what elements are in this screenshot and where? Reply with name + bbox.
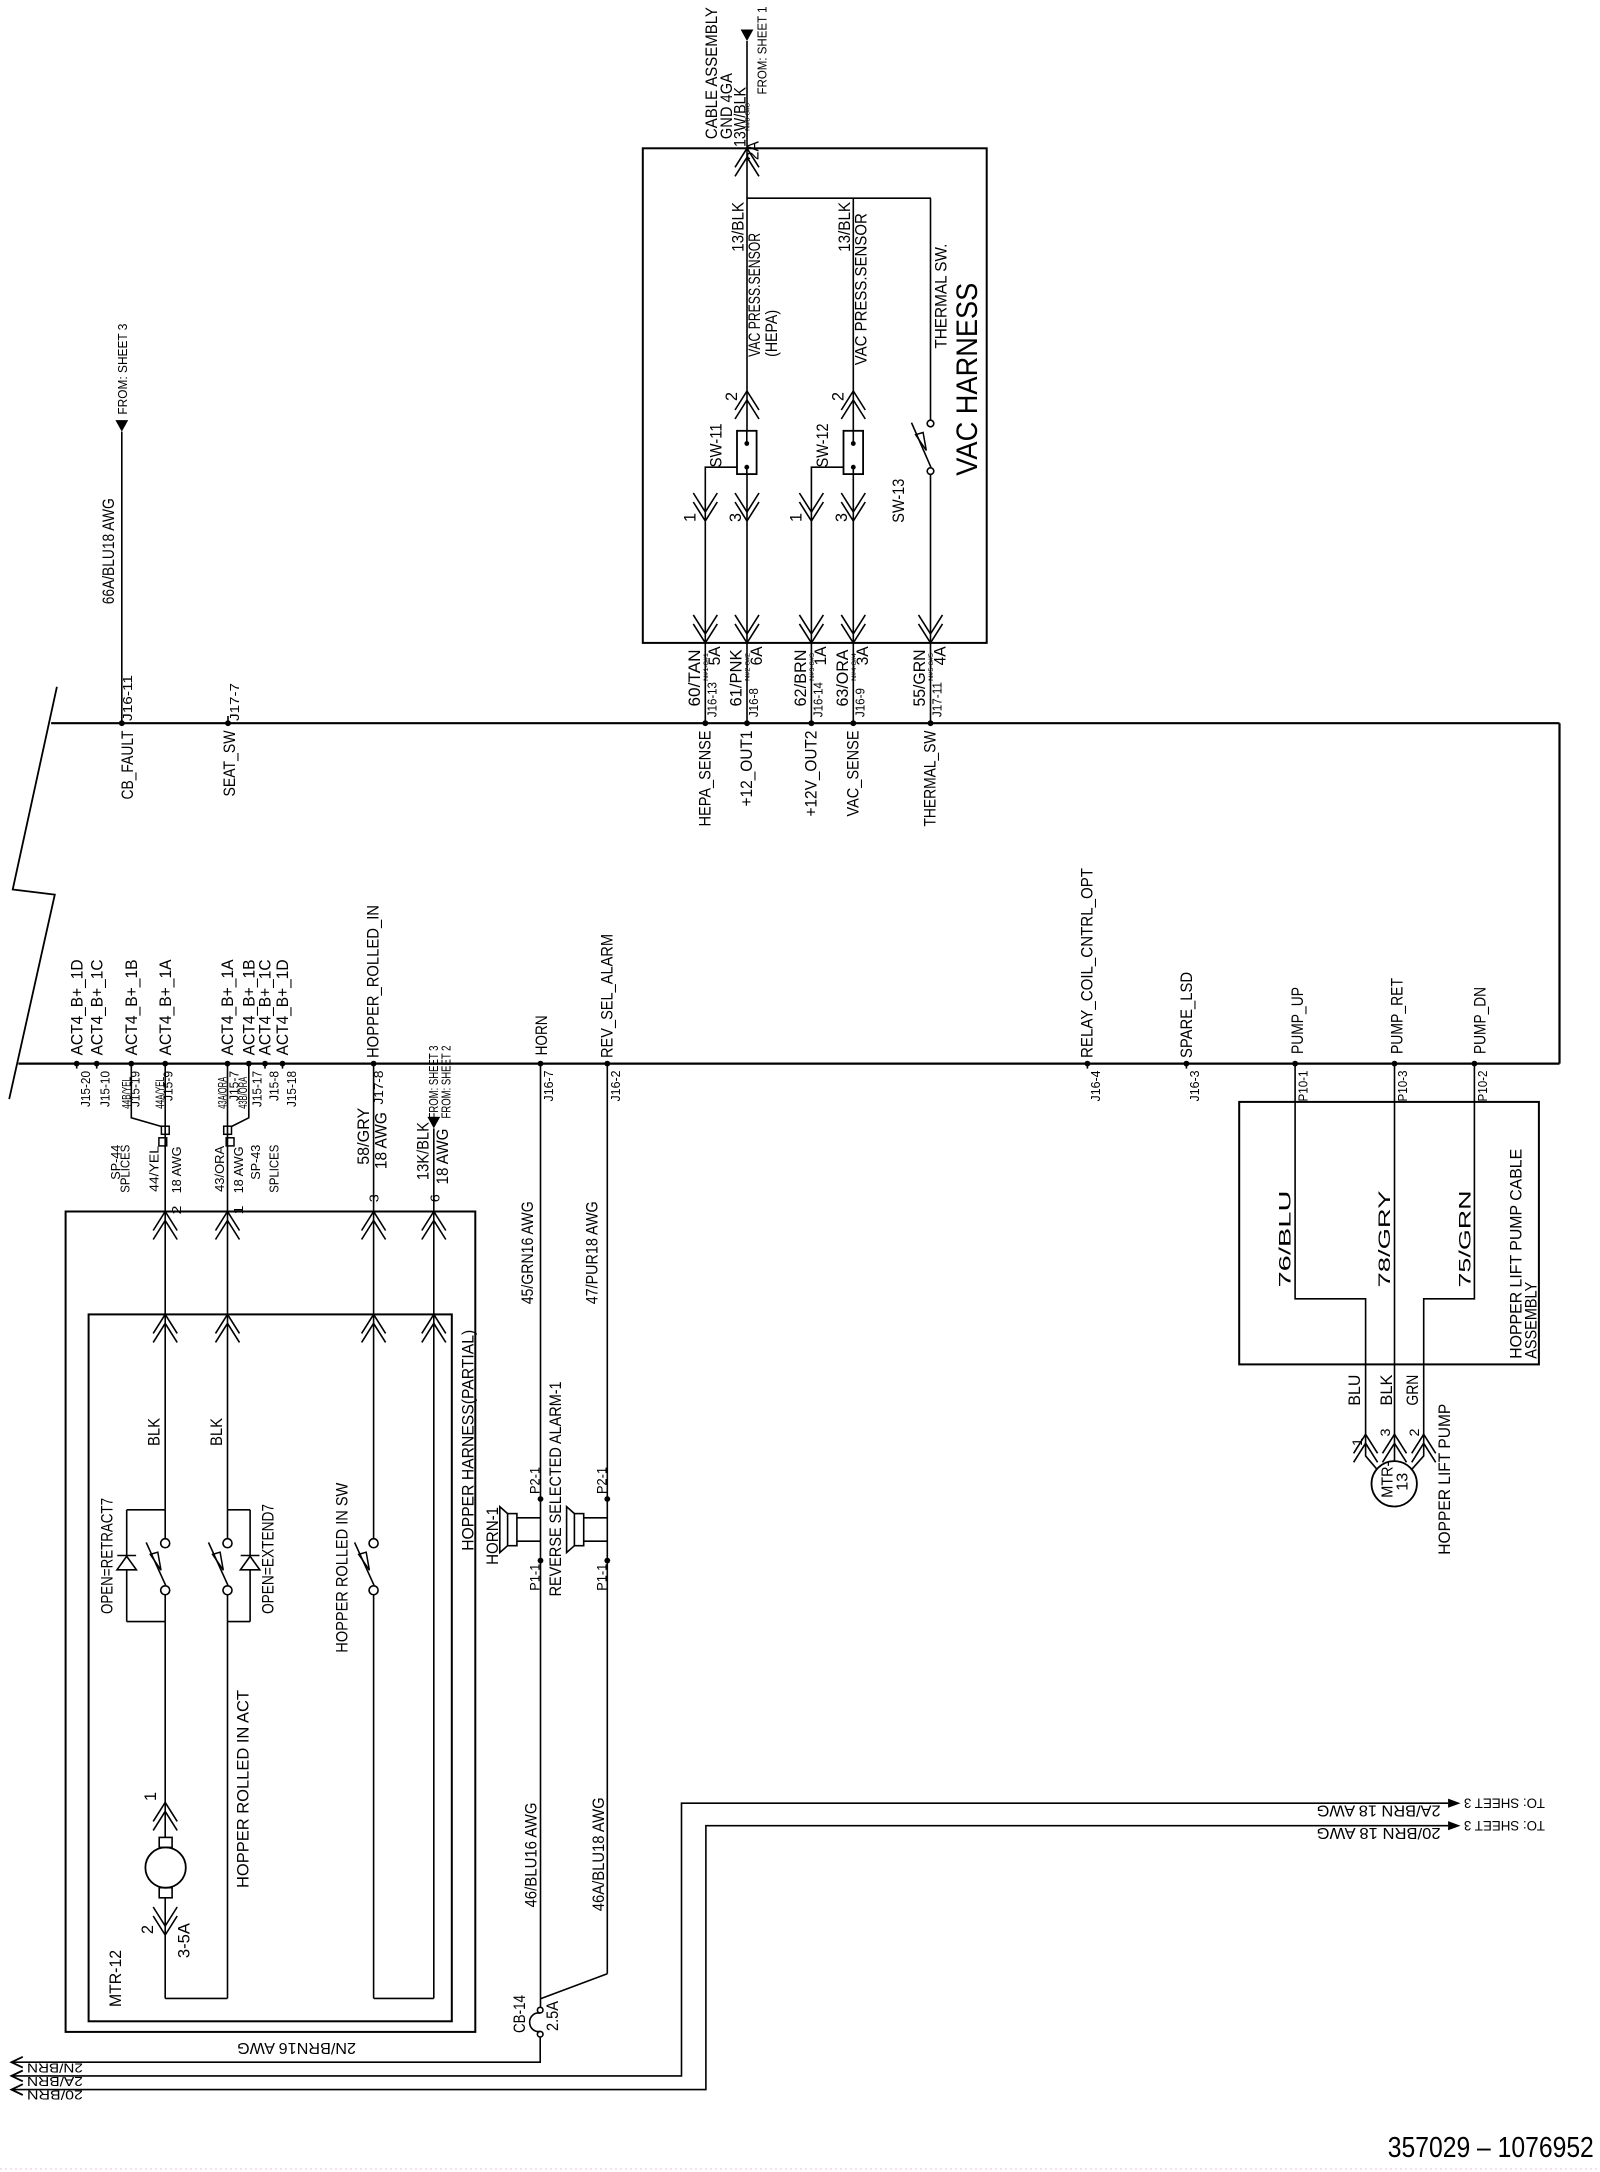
svg-text:3: 3	[367, 1194, 382, 1202]
svg-text:58/GRY: 58/GRY	[355, 1108, 373, 1165]
wire: 13/BLK branch to SW-12 pin 2	[852, 198, 854, 431]
break symbol: controller torn edge	[9, 687, 57, 1099]
svg-text:6: 6	[427, 1194, 442, 1202]
svg-text:HOPPER HARNESS(PARTIAL): HOPPER HARNESS(PARTIAL)	[459, 1330, 477, 1551]
svg-text:1: 1	[142, 1792, 160, 1801]
svg-text:2A/BRN: 2A/BRN	[27, 2074, 83, 2089]
svg-text:FROM: SHEET 1: FROM: SHEET 1	[755, 7, 770, 95]
chevron: crossing at hopper box top edge	[362, 1212, 386, 1240]
wire: 44/YEL inside harness (w1 upper)	[164, 1212, 166, 1510]
node: junction J15-18 (no wire)	[280, 1061, 286, 1067]
chevron: crossing at hopper box top edge	[153, 1212, 177, 1240]
node: P2-1 junction (horn)	[538, 1496, 544, 1502]
wire: motor bottom lead	[164, 1898, 166, 1999]
svg-text:357029 – 1076952: 357029 – 1076952	[1388, 2132, 1594, 2164]
svg-text:61/PNK: 61/PNK	[728, 650, 746, 707]
svg-text:THERMAL_SW: THERMAL_SW	[922, 730, 940, 826]
svg-text:(HEPA): (HEPA)	[763, 310, 781, 357]
wire: SW-11 pin 1 tap	[705, 467, 737, 643]
svg-text:2: 2	[829, 392, 847, 401]
wire: SW-11 pin 3 down	[746, 474, 748, 643]
wire: 43/ORA inside harness (w2 upper)	[227, 1212, 229, 1510]
node: junction J15-20 (no wire)	[74, 1061, 80, 1067]
svg-text:OPEN=EXTEND7: OPEN=EXTEND7	[260, 1504, 278, 1614]
svg-text:HORN: HORN	[533, 1015, 551, 1055]
svg-text:13/BLK: 13/BLK	[836, 202, 854, 252]
node: junction J16-4 (no wire)	[1085, 1061, 1091, 1067]
wire: combo 2 top node	[228, 1509, 251, 1511]
svg-text:BLU: BLU	[1346, 1375, 1364, 1406]
svg-text:BLK: BLK	[208, 1418, 226, 1446]
svg-text:78/GRY: 78/GRY	[1376, 1191, 1394, 1288]
switch: HOPPER ROLLED IN SW	[373, 1212, 375, 1539]
svg-text:1: 1	[787, 513, 805, 522]
svg-text:N#3-8#3: N#3-8#3	[809, 653, 816, 681]
svg-text:60/TAN: 60/TAN	[686, 650, 704, 707]
svg-text:47/PUR18 AWG: 47/PUR18 AWG	[584, 1201, 602, 1304]
svg-text:HEPA_SENSE: HEPA_SENSE	[697, 731, 715, 827]
wire: 13K/BLK inside harness (w4)	[433, 1212, 435, 1999]
arrow: 2A/BRN exit left	[11, 2071, 22, 2082]
svg-text:TO: SHEET 3: TO: SHEET 3	[1464, 1818, 1545, 1833]
svg-text:44/YEL: 44/YEL	[147, 1146, 161, 1192]
wire: 20/BRN run to sheet 3	[11, 1826, 1448, 2090]
svg-text:3: 3	[1377, 1428, 1393, 1436]
svg-text:20/BRN: 20/BRN	[27, 2088, 83, 2103]
wire: SW-12 pin 1 tap	[811, 467, 843, 643]
node: junction J16-9 on upper bus	[850, 720, 856, 726]
svg-text:HOPPER LIFT PUMP: HOPPER LIFT PUMP	[1436, 1404, 1454, 1555]
chevron: motor pin 2 (MTR-13)	[1412, 1434, 1436, 1462]
chevron: 63/ORA crossing at VAC box bottom edge	[841, 615, 865, 643]
chevron: pin 1 of SW-11	[693, 493, 717, 521]
svg-text:2: 2	[139, 1925, 157, 1934]
svg-text:P10-2: P10-2	[1475, 1071, 1490, 1102]
svg-text:J15-17: J15-17	[249, 1071, 264, 1107]
harness box: hopper harness inner outline	[89, 1314, 452, 2021]
wire: J15-9 through splice SP-44 into hopper harness	[164, 1064, 166, 1212]
svg-text:45/GRN16 AWG: 45/GRN16 AWG	[519, 1201, 537, 1304]
component: vacuum pressure sensor SW-11	[737, 431, 757, 474]
svg-text:ACT4_B+_1B: ACT4_B+_1B	[123, 959, 141, 1055]
svg-text:HOPPER ROLLED IN SW: HOPPER ROLLED IN SW	[334, 1482, 352, 1652]
node: junction J16-3 (no wire)	[1184, 1061, 1190, 1067]
svg-text:13: 13	[1395, 1473, 1412, 1491]
arrow: TO SHEET 3 (2A/BRN)	[1448, 1799, 1460, 1808]
svg-text:J16-13: J16-13	[705, 682, 720, 717]
chevron: crossing at hopper inner box top edge	[422, 1314, 446, 1342]
svg-text:HORN-1: HORN-1	[484, 1507, 502, 1565]
arrow: TO SHEET 3 (20/BRN)	[1448, 1821, 1460, 1830]
wire: 2N/BRN return from CB-14 to left edge	[11, 2037, 540, 2062]
wire: 61/PNK from VAC harness to pin J16-8	[746, 643, 748, 723]
svg-text:ACT4_B+_1C: ACT4_B+_1C	[88, 959, 106, 1055]
scan artifact: faint dotted line at bottom	[0, 2168, 1600, 2170]
svg-text:BLK: BLK	[1378, 1375, 1396, 1406]
svg-text:SW-11: SW-11	[708, 423, 726, 467]
svg-text:2.5A: 2.5A	[544, 2001, 562, 2031]
component: thermal switch SW-13	[927, 420, 934, 427]
wire: 13K/BLK from sheets 3 and 2	[433, 1128, 435, 1211]
chevron: 60/TAN crossing at VAC box bottom edge	[693, 615, 717, 643]
svg-text:J16-2: J16-2	[608, 1071, 623, 1102]
svg-text:CB-14: CB-14	[511, 1995, 529, 2033]
diode: retract limit diode	[126, 1510, 128, 1556]
svg-text:ACT4_B+_1A: ACT4_B+_1A	[157, 959, 175, 1055]
svg-text:13/BLK: 13/BLK	[730, 202, 748, 252]
node: junction J16-11 on upper bus	[119, 720, 125, 726]
wire: w1 combo to motor	[164, 1622, 166, 1838]
svg-text:SPLICES: SPLICES	[118, 1145, 132, 1193]
svg-text:P1-1: P1-1	[594, 1564, 609, 1591]
svg-text:P1-1: P1-1	[528, 1564, 543, 1591]
svg-text:3: 3	[833, 513, 851, 522]
svg-text:76/BLU: 76/BLU	[1277, 1191, 1295, 1288]
arrow: FROM SHEET 1 entry	[741, 30, 754, 42]
svg-text:GRN: GRN	[1404, 1375, 1422, 1406]
wire: J15-19 stub to splice SP-44	[131, 1064, 161, 1127]
wire: 55/GRN from VAC harness to pin J17-11	[930, 643, 932, 723]
svg-text:J16-3: J16-3	[1187, 1071, 1202, 1102]
svg-text:N#2-8#2: N#2-8#2	[745, 653, 752, 681]
wire: J15-17 stub to splice SP-43	[232, 1064, 249, 1127]
splice SP-43	[224, 1126, 232, 1134]
svg-text:HOPPER ROLLED IN ACT: HOPPER ROLLED IN ACT	[234, 1690, 252, 1888]
svg-text:1: 1	[1349, 1438, 1365, 1446]
svg-text:ACT4_B+_1A: ACT4_B+_1A	[219, 959, 237, 1055]
svg-text:J16-9: J16-9	[853, 688, 868, 717]
svg-text:P2-1: P2-1	[528, 1467, 543, 1494]
component: vacuum pressure sensor SW-12	[844, 431, 864, 474]
svg-text:ACT4_B+_1C: ACT4_B+_1C	[257, 959, 275, 1055]
node: junction J17-11 on upper bus	[928, 720, 934, 726]
wire: 2A/BRN run to sheet 3	[11, 1803, 1448, 2076]
svg-text:HOPPER_ROLLED_IN: HOPPER_ROLLED_IN	[365, 905, 383, 1058]
wire: 13/BLK branch to thermal switch SW-13	[930, 198, 932, 420]
wire: J17-8 to hopper rolled in switch	[373, 1064, 375, 1212]
chevron: pin 2 of SW-12	[841, 391, 865, 419]
node: junction J15-10 (no wire)	[94, 1061, 100, 1067]
svg-text:OPEN=RETRACT7: OPEN=RETRACT7	[99, 1498, 117, 1614]
svg-text:J15-8: J15-8	[267, 1071, 282, 1101]
svg-text:+12_OUT1: +12_OUT1	[738, 731, 756, 807]
wire: controller right edge	[1558, 723, 1560, 1063]
arrow: FROM SHEET 3 entry	[115, 420, 128, 432]
wire: U return w3-w4	[374, 1997, 434, 1999]
svg-text:J16-11: J16-11	[120, 675, 135, 721]
chevron: crossing at hopper box top edge	[422, 1212, 446, 1240]
svg-text:N#1-8#1: N#1-8#1	[703, 653, 710, 681]
harness box: HOPPER LIFT PUMP CABLE ASSEMBLY outline	[1239, 1102, 1539, 1365]
svg-text:MTR-12: MTR-12	[107, 1950, 125, 2007]
svg-text:3: 3	[727, 513, 745, 522]
svg-text:2: 2	[1406, 1428, 1422, 1436]
svg-text:2N/BRN16 AWG: 2N/BRN16 AWG	[237, 2039, 356, 2056]
chevron: motor pin 3 (MTR-13)	[1383, 1434, 1407, 1462]
svg-text:46A/BLU18 AWG: 46A/BLU18 AWG	[590, 1797, 608, 1911]
svg-text:55/GRN: 55/GRN	[911, 650, 929, 707]
svg-text:3-5A: 3-5A	[175, 1923, 193, 1958]
svg-text:SPLICES: SPLICES	[268, 1145, 282, 1193]
chevron: pin 3 of SW-11	[735, 493, 759, 521]
svg-text:FROM: SHEET 2: FROM: SHEET 2	[438, 1046, 453, 1119]
wire: alarm return diagonal to CB-14	[541, 1974, 608, 1999]
svg-text:TO: SHEET 3: TO: SHEET 3	[1464, 1796, 1545, 1811]
svg-text:N#5-8#5: N#5-8#5	[928, 653, 935, 681]
svg-text:18 AWG: 18 AWG	[170, 1146, 184, 1193]
wire: 13/BLK branch horizontal	[747, 197, 931, 199]
svg-text:VAC PRESS.SENSOR: VAC PRESS.SENSOR	[746, 233, 764, 357]
chevron: 55/GRN crossing at VAC box bottom edge	[919, 615, 943, 643]
svg-text:CB_FAULT: CB_FAULT	[119, 731, 137, 800]
switch: extend limit switch	[227, 1510, 229, 1539]
svg-text:46/BLU16 AWG: 46/BLU16 AWG	[522, 1803, 540, 1908]
wire: SW-12 pin 3 down	[852, 474, 854, 643]
svg-text:VAC HARNESS: VAC HARNESS	[951, 283, 984, 476]
svg-text:13K/BLK: 13K/BLK	[415, 1122, 433, 1180]
chevron: 62/BRN crossing at VAC box bottom edge	[799, 615, 823, 643]
svg-text:SW-13: SW-13	[890, 479, 908, 523]
svg-text:BLK: BLK	[145, 1418, 163, 1446]
node: junction J16-8 on upper bus	[744, 720, 750, 726]
arrow: 2N/BRN exit left	[11, 2057, 22, 2068]
motor MTR-12	[159, 1837, 172, 1847]
wire: 75/GRN pump down from P10-2	[1412, 1064, 1475, 1470]
svg-text:SPARE_LSD: SPARE_LSD	[1178, 972, 1196, 1058]
svg-text:P2-1: P2-1	[594, 1467, 609, 1494]
speaker: HORN-1	[508, 1514, 517, 1546]
node: junction J16-13 on upper bus	[702, 720, 708, 726]
svg-text:2N/BRN: 2N/BRN	[27, 2061, 83, 2076]
svg-text:VAC_SENSE: VAC_SENSE	[845, 731, 863, 817]
circuit breaker CB-14	[537, 2007, 543, 2013]
chevron: crossing at hopper inner box top edge	[153, 1314, 177, 1342]
wire: 47/PUR alarm feed from J16-2	[606, 1064, 608, 1974]
svg-text:44A/YEL: 44A/YEL	[153, 1077, 167, 1109]
wire: 13/BLK vertical to SW-11 pin 2	[746, 148, 748, 431]
chevron: motor pin 1 (MTR-13)	[1354, 1434, 1378, 1462]
svg-text:+12V_OUT2: +12V_OUT2	[803, 731, 821, 817]
chevron: pin 3 of SW-12	[841, 493, 865, 521]
arrow: 20/BRN exit left	[11, 2084, 22, 2095]
wire: controller lower bus line	[18, 1062, 1559, 1064]
wire: 60/TAN from VAC harness to pin J16-13	[704, 643, 706, 723]
wire: 76/BLU pump up from P10-1	[1295, 1064, 1377, 1470]
svg-text:43A/ORA: 43A/ORA	[215, 1077, 229, 1109]
svg-text:1: 1	[231, 1206, 246, 1215]
wire: U return w1-w2	[165, 1997, 227, 1999]
svg-text:PUMP_DN: PUMP_DN	[1472, 987, 1490, 1054]
wire: combo 1 bottom node	[127, 1621, 166, 1623]
svg-text:1: 1	[681, 513, 699, 522]
pin stub: J17-7	[227, 716, 229, 723]
svg-text:RELAY_COIL_CNTRL_OPT: RELAY_COIL_CNTRL_OPT	[1079, 868, 1097, 1058]
wire: 63/ORA from VAC harness to pin J16-9	[852, 643, 854, 723]
svg-text:J16-4: J16-4	[1088, 1071, 1103, 1102]
svg-text:20/BRN 18 AWG: 20/BRN 18 AWG	[1317, 1824, 1441, 1841]
wire: controller upper bus line	[51, 722, 1559, 724]
svg-text:18 AWG: 18 AWG	[434, 1129, 452, 1185]
svg-text:SP-43: SP-43	[249, 1145, 263, 1180]
chevron: 61/PNK crossing at VAC box bottom edge	[735, 615, 759, 643]
svg-text:75/GRN: 75/GRN	[1457, 1191, 1475, 1288]
svg-text:J16-14: J16-14	[811, 682, 826, 717]
harness box: HOPPER HARNESS (PARTIAL) outer outline	[66, 1212, 476, 2032]
svg-text:N#8-8#8: N#8-8#8	[745, 103, 752, 131]
wire: J15-7 through splice SP-43 into hopper harness	[227, 1064, 229, 1212]
svg-text:43B/ORA: 43B/ORA	[236, 1077, 250, 1109]
wire: combo 2 bottom node	[228, 1621, 251, 1623]
svg-text:P10-3: P10-3	[1395, 1071, 1410, 1102]
chevron: crossing at hopper box top edge	[216, 1212, 240, 1240]
svg-text:PUMP_RET: PUMP_RET	[1389, 978, 1407, 1054]
harness box: VAC HARNESS outline	[643, 148, 987, 643]
svg-text:63/ORA: 63/ORA	[834, 650, 852, 707]
chevron: motor pin 1	[153, 1802, 177, 1830]
svg-text:SW-12: SW-12	[814, 423, 832, 467]
svg-text:J15-18: J15-18	[284, 1071, 299, 1107]
svg-text:18 AWG: 18 AWG	[372, 1112, 390, 1169]
wire: 45/GRN horn feed from J16-7	[540, 1064, 542, 2008]
svg-text:2: 2	[169, 1206, 184, 1215]
node: P2-1 junction (alarm)	[604, 1496, 610, 1502]
splice SP-44	[161, 1126, 169, 1134]
chevron: crossing at hopper inner box top edge	[216, 1314, 240, 1342]
chevron: motor pin 2	[153, 1907, 177, 1935]
svg-text:ACT4_B+_1D: ACT4_B+_1D	[68, 959, 86, 1055]
wire: 62/BRN from VAC harness to pin J16-14	[810, 643, 812, 723]
svg-text:P10-1: P10-1	[1296, 1071, 1311, 1102]
wire: SW-13 lower lead	[930, 474, 932, 643]
speaker: REVERSE SELECTED ALARM-1	[574, 1514, 583, 1546]
svg-text:2A/BRN 18 AWG: 2A/BRN 18 AWG	[1317, 1802, 1441, 1819]
svg-text:2: 2	[723, 392, 741, 401]
switch: retract limit switch	[164, 1510, 166, 1539]
svg-text:THERMAL SW.: THERMAL SW.	[933, 244, 951, 349]
motor MTR-13 hopper lift pump	[1372, 1461, 1417, 1506]
chevron: crossing at hopper inner box top edge	[362, 1314, 386, 1342]
node: P1-1 junction (alarm)	[604, 1558, 610, 1564]
svg-text:SEAT_SW: SEAT_SW	[221, 730, 239, 796]
svg-text:J17-7: J17-7	[227, 683, 242, 721]
diode: extend limit diode	[249, 1510, 251, 1556]
svg-text:43/ORA: 43/ORA	[213, 1145, 227, 1192]
svg-text:J15-20: J15-20	[78, 1071, 93, 1107]
wire: 66A/BLU18 AWG from sheet 3 to J16-11	[121, 432, 123, 724]
chevron: 2A crossing at VAC box top edge	[735, 148, 759, 176]
svg-text:PUMP_UP: PUMP_UP	[1289, 987, 1307, 1054]
svg-text:44B/YEL: 44B/YEL	[119, 1077, 133, 1109]
wire: combo 1 top node	[127, 1509, 166, 1511]
svg-text:ACT4_B+_1D: ACT4_B+_1D	[274, 959, 292, 1055]
svg-text:J15-10: J15-10	[98, 1071, 113, 1107]
svg-text:18 AWG: 18 AWG	[232, 1146, 246, 1193]
svg-text:62/BRN: 62/BRN	[792, 650, 810, 707]
wire: 13W/BLK ground feed from sheet 1	[746, 41, 748, 148]
svg-text:J16-7: J16-7	[541, 1071, 556, 1102]
svg-text:REV_SEL_ALARM: REV_SEL_ALARM	[599, 934, 617, 1058]
svg-text:J17-8: J17-8	[371, 1071, 386, 1105]
svg-text:VAC PRESS.SENSOR: VAC PRESS.SENSOR	[853, 213, 871, 365]
svg-text:66A/BLU18 AWG: 66A/BLU18 AWG	[100, 498, 118, 604]
chevron: pin 2 of SW-11	[735, 391, 759, 419]
svg-text:REVERSE SELECTED ALARM-1: REVERSE SELECTED ALARM-1	[547, 1381, 565, 1596]
svg-text:J16-8: J16-8	[746, 688, 761, 717]
node: junction J15-8 (no wire)	[262, 1061, 268, 1067]
svg-text:FROM: SHEET 3: FROM: SHEET 3	[115, 324, 130, 415]
svg-text:J17-11: J17-11	[930, 682, 945, 717]
chevron: pin 1 of SW-12	[799, 493, 823, 521]
node: junction J16-14 on upper bus	[809, 720, 815, 726]
svg-text:ASSEMBLY: ASSEMBLY	[1522, 1282, 1540, 1359]
wire: 78/GRY pump return from P10-3	[1394, 1064, 1396, 1462]
svg-text:N#4-8#4: N#4-8#4	[851, 653, 858, 681]
node: P1-1 junction (horn)	[538, 1558, 544, 1564]
arrow: FROM SHEET entry (13K/BLK)	[427, 1117, 440, 1129]
